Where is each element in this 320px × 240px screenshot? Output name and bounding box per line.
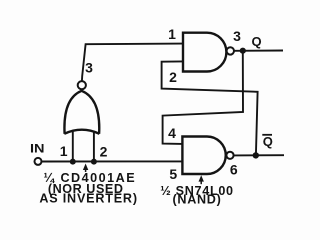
NOR output bubble: [78, 81, 86, 89]
svg-text:1: 1: [168, 26, 176, 42]
leader arrow to NAND U2b: [199, 175, 204, 181]
wire Q output: [234, 50, 283, 52]
svg-text:4: 4: [168, 125, 176, 141]
wire NOR input stub 1: [72, 131, 74, 162]
terminal IN: [35, 158, 42, 165]
junction pin2: [91, 159, 97, 165]
svg-text:(NAND): (NAND): [173, 193, 222, 207]
label Qbar overbar: [262, 134, 272, 136]
wire NOR input stub 2: [93, 131, 95, 162]
node Qbar junction: [253, 152, 259, 158]
NAND gate U2b (1/2 SN74L00): [182, 137, 225, 175]
wire Qbar output: [234, 154, 284, 156]
NAND U2b output bubble: [226, 152, 233, 159]
wire NOR output to NAND pin1: [82, 44, 183, 82]
svg-text:2: 2: [169, 69, 177, 85]
svg-text:IN: IN: [30, 142, 45, 156]
wire IN to pin5: [41, 160, 182, 162]
svg-text:Q: Q: [263, 134, 273, 149]
svg-text:6: 6: [230, 161, 238, 177]
svg-text:AS INVERTER): AS INVERTER): [39, 191, 137, 205]
NOR gate U1 (1/4 CD4001AE): [64, 91, 99, 134]
svg-text:2: 2: [100, 143, 108, 159]
junction pin1: [70, 159, 76, 165]
wire feedback Qbar to NAND pin2: [162, 61, 258, 155]
leader arrow tail (NOR): [85, 168, 87, 172]
NAND gate U2a (1/2 SN74L00): [183, 33, 226, 72]
wire feedback Q to NAND pin4: [163, 53, 243, 144]
NAND U2a output bubble: [227, 47, 234, 54]
svg-text:3: 3: [85, 60, 93, 76]
leader arrow tail (NAND): [200, 180, 202, 184]
svg-text:3: 3: [233, 28, 241, 44]
svg-text:5: 5: [169, 166, 177, 182]
svg-text:1: 1: [60, 143, 68, 159]
node Q junction: [240, 48, 246, 54]
svg-text:Q: Q: [252, 34, 262, 49]
leader arrow to NOR gate: [83, 164, 88, 171]
